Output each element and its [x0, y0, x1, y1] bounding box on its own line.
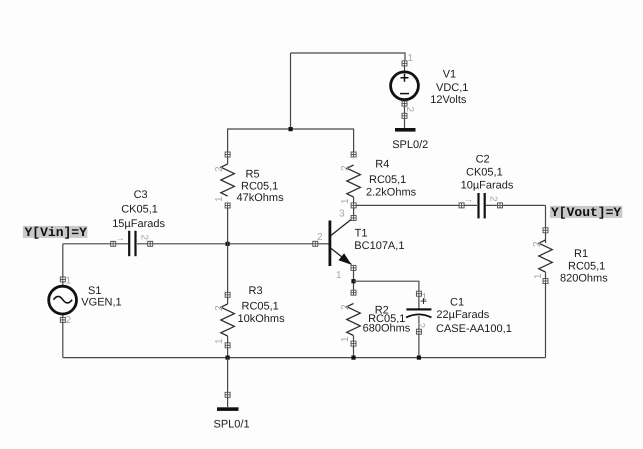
net label Y[Vin]=Y — [23, 225, 88, 240]
svg-text:T1: T1 — [355, 228, 368, 240]
svg-text:Y[Vout]=Y: Y[Vout]=Y — [551, 205, 621, 220]
source S1 sine generator — [49, 276, 122, 327]
svg-text:12Volts: 12Volts — [430, 94, 467, 106]
wire supply rail to R5 and R4 — [228, 129, 354, 157]
svg-text:→: → — [464, 195, 474, 206]
wire collector pin to R4 — [353, 205, 355, 219]
svg-text:1: 1 — [340, 336, 351, 342]
svg-text:2: 2 — [532, 241, 543, 247]
svg-text:15µFarads: 15µFarads — [112, 218, 165, 230]
svg-text:R1: R1 — [574, 248, 588, 260]
capacitor C2 — [459, 154, 514, 219]
svg-text:C2: C2 — [476, 154, 490, 166]
svg-text:2: 2 — [214, 166, 225, 172]
svg-text:CK05,1: CK05,1 — [121, 204, 158, 216]
svg-text:22µFarads: 22µFarads — [436, 309, 489, 321]
node R3 ground junction — [226, 356, 230, 360]
svg-text:RC05,1: RC05,1 — [242, 301, 279, 313]
wire emitter junction to C1 — [354, 281, 419, 310]
svg-text:CASE-AA100,1: CASE-AA100,1 — [436, 323, 512, 335]
svg-text:R3: R3 — [249, 285, 263, 297]
svg-text:1: 1 — [214, 196, 225, 202]
wire V1 pin1 to circle — [404, 63, 406, 73]
capacitor C1 electrolytic — [406, 291, 512, 335]
svg-text:R4: R4 — [375, 159, 389, 171]
svg-text:+: + — [420, 294, 427, 308]
resistor R2 — [340, 290, 411, 346]
svg-text:CK05,1: CK05,1 — [466, 167, 503, 179]
svg-text:C3: C3 — [134, 189, 148, 201]
wire emitter to R2 — [353, 266, 355, 295]
svg-text:V1: V1 — [443, 69, 456, 81]
svg-text:1: 1 — [340, 198, 351, 204]
svg-text:3: 3 — [339, 209, 345, 220]
svg-text:C1: C1 — [450, 297, 464, 309]
svg-text:2: 2 — [340, 165, 351, 171]
wire top rail from supply branch to V1 — [291, 53, 406, 61]
node C1 ground junction — [417, 356, 421, 360]
wire R3 bottom to ground rail — [227, 343, 229, 358]
wire R5 bottom to junction — [227, 203, 229, 244]
wire S1 bottom lead — [62, 313, 64, 358]
wire base rail — [63, 243, 129, 245]
svg-text:2: 2 — [66, 315, 72, 326]
svg-text:VDC,1: VDC,1 — [436, 82, 468, 94]
wire supply vertical drop — [290, 53, 292, 129]
svg-text:2: 2 — [404, 107, 415, 113]
svg-text:S1: S1 — [88, 285, 101, 297]
wire V1 to ground SPL0/2 — [404, 99, 406, 128]
resistor R1 — [532, 228, 608, 285]
node R2 ground junction — [351, 356, 355, 360]
svg-text:SPL0/1: SPL0/1 — [214, 419, 250, 431]
wire junction to R3 top — [227, 244, 229, 297]
svg-text:1: 1 — [336, 270, 342, 281]
wire S1 top lead — [62, 244, 64, 287]
svg-text:2: 2 — [214, 305, 225, 311]
wire R2 bottom lead — [353, 341, 355, 358]
svg-text:VGEN,1: VGEN,1 — [81, 297, 121, 309]
svg-text:1: 1 — [533, 273, 544, 279]
wire R1 bottom to ground rail — [545, 279, 547, 358]
svg-text:2: 2 — [317, 232, 323, 243]
ground SPL0/1 — [214, 392, 250, 430]
net label Y[Vout]=Y — [550, 205, 623, 220]
ground SPL0/2 — [392, 128, 428, 151]
transistor T1 — [313, 209, 405, 282]
node emitter junction — [351, 279, 355, 283]
svg-text:680Ohms: 680Ohms — [363, 323, 411, 335]
svg-text:R5: R5 — [246, 169, 260, 181]
svg-text:2: 2 — [415, 323, 426, 329]
svg-text:1: 1 — [214, 338, 225, 344]
svg-text:10µFarads: 10µFarads — [461, 180, 514, 192]
svg-text:2.2kOhms: 2.2kOhms — [366, 187, 417, 199]
resistor R3 — [214, 285, 285, 348]
svg-text:RC05,1: RC05,1 — [369, 174, 406, 186]
wire from C3 to base — [137, 243, 316, 245]
svg-text:47kOhms: 47kOhms — [237, 192, 285, 204]
wire C1 bottom lead — [418, 316, 420, 358]
source V1 DC supply — [391, 53, 469, 118]
svg-text:1: 1 — [66, 276, 72, 287]
wire ground stub SPL0/1 — [227, 358, 229, 407]
svg-text:RC05,1: RC05,1 — [241, 181, 278, 193]
svg-text:2: 2 — [340, 304, 351, 310]
node base junction — [226, 242, 230, 246]
svg-text:10kOhms: 10kOhms — [238, 313, 286, 325]
svg-text:820Ohms: 820Ohms — [560, 273, 608, 285]
svg-text:SPL0/2: SPL0/2 — [392, 139, 428, 151]
resistor R5 — [214, 152, 284, 208]
svg-text:2: 2 — [488, 196, 499, 202]
svg-text:RC05,1: RC05,1 — [568, 261, 605, 273]
wire collector node to C2 and R1 corner — [354, 204, 477, 206]
wire bottom ground rail — [63, 357, 546, 359]
svg-text:1: 1 — [408, 53, 414, 64]
svg-text:→: → — [115, 233, 125, 244]
capacitor C3 — [111, 189, 166, 256]
resistor R4 — [340, 152, 417, 208]
svg-text:2: 2 — [139, 235, 150, 241]
svg-text:Y[Vin]=Y: Y[Vin]=Y — [25, 225, 88, 240]
node supply junction — [289, 127, 293, 131]
svg-text:BC107A,1: BC107A,1 — [354, 240, 404, 252]
